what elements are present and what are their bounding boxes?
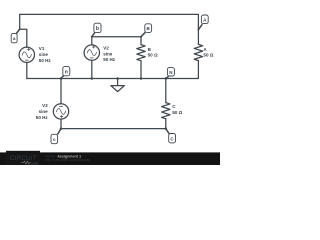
resistor B bbox=[137, 45, 145, 61]
svg-text:50 Ω: 50 Ω bbox=[172, 110, 182, 115]
wire V2 top lead bbox=[92, 37, 141, 45]
wire N to resistor A bottom bbox=[166, 61, 199, 79]
svg-text:A: A bbox=[203, 47, 207, 52]
svg-text:50 Hz: 50 Hz bbox=[36, 115, 49, 120]
wire C bottom lead bbox=[165, 119, 167, 129]
wire N down to resistor C bbox=[165, 79, 167, 103]
node flag n bbox=[61, 67, 70, 79]
node flag A bbox=[197, 15, 208, 31]
label resistor B value bbox=[148, 47, 158, 57]
watermark logo backdrop bbox=[6, 151, 40, 165]
svg-text:b: b bbox=[96, 26, 99, 32]
node flag b bbox=[91, 23, 101, 37]
label resistor A value bbox=[203, 47, 213, 57]
node flag B bbox=[140, 24, 152, 38]
node flag N bbox=[166, 68, 175, 79]
wire V1 bottom lead bbox=[26, 62, 28, 78]
svg-text:a: a bbox=[13, 36, 16, 41]
svg-text:50 Ω: 50 Ω bbox=[148, 52, 158, 57]
watermark bar bbox=[0, 152, 220, 165]
svg-text:B: B bbox=[148, 47, 152, 52]
ground bbox=[111, 79, 124, 92]
wire V3 top lead bbox=[60, 79, 62, 104]
voltage source V1 bbox=[19, 47, 34, 62]
label resistor C value bbox=[172, 104, 182, 115]
voltage source V2 bbox=[84, 45, 99, 60]
wire B bottom lead bbox=[140, 61, 142, 79]
node flag C bbox=[166, 129, 176, 143]
wire V2 bottom lead bbox=[91, 60, 93, 78]
label V2 bbox=[103, 46, 116, 63]
watermark logo doodle bbox=[21, 161, 31, 164]
voltage source V3 bbox=[53, 104, 68, 119]
wire top rail bbox=[20, 14, 199, 44]
wire V3 bottom lead bbox=[60, 119, 62, 129]
svg-text:n: n bbox=[65, 69, 68, 75]
svg-text:c: c bbox=[53, 137, 56, 142]
svg-text:50 Ω: 50 Ω bbox=[203, 52, 213, 57]
label V1 bbox=[39, 46, 52, 63]
svg-text:50 Hz: 50 Hz bbox=[39, 58, 52, 63]
svg-text:V3: V3 bbox=[42, 103, 48, 108]
wire bottom row bbox=[61, 128, 166, 130]
svg-text:V2: V2 bbox=[103, 46, 109, 51]
junction dots bbox=[60, 77, 167, 130]
svg-text:sine: sine bbox=[39, 52, 49, 57]
svg-text:sine: sine bbox=[39, 109, 49, 114]
label V3 bbox=[36, 103, 49, 120]
wire bottom bus bbox=[27, 78, 166, 80]
svg-text:http://circuitlab.com/c5xxcab: http://circuitlab.com/c5xxcab bbox=[45, 158, 90, 162]
node flag a bbox=[11, 28, 20, 43]
resistor C bbox=[162, 103, 170, 119]
svg-text:C: C bbox=[172, 104, 176, 109]
svg-text:V1: V1 bbox=[39, 46, 45, 51]
svg-text:sine: sine bbox=[103, 52, 113, 57]
resistor A bbox=[194, 44, 202, 60]
node flag c bbox=[51, 129, 61, 144]
wire jog to V1 top bbox=[20, 29, 27, 47]
svg-text:50 Hz: 50 Hz bbox=[103, 57, 116, 62]
svg-text:LAB: LAB bbox=[29, 161, 38, 165]
